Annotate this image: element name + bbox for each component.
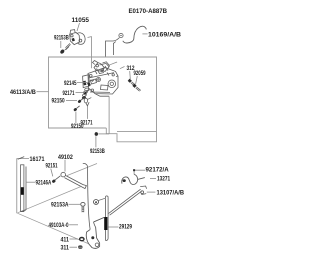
bolt 92151 — [51, 179, 56, 184]
leader 16171 — [17, 159, 29, 214]
lever upper-right edge — [94, 217, 105, 222]
leaders to bottom labels — [76, 106, 88, 123]
clip above 92171 bottom label — [86, 102, 89, 106]
diagonals to 312 bolts — [110, 62, 125, 69]
svg-text:13107/A/B: 13107/A/B — [157, 190, 185, 197]
svg-text:11055: 11055 — [72, 17, 90, 24]
spring strip panel — [105, 196, 108, 241]
rod 13107/A/B — [109, 189, 141, 213]
bolt 92153A — [81, 202, 85, 212]
leader 29129 — [108, 226, 118, 228]
leader 13271 — [150, 177, 156, 179]
lever 49103A long left edge with hook top — [83, 163, 88, 166]
line from bracket to assembly — [88, 37, 92, 69]
leader 92146A — [26, 181, 36, 183]
dark bolt in left plate — [83, 81, 86, 86]
leader 411 — [70, 238, 79, 240]
bracket dark rivet — [71, 38, 74, 42]
leader 13107/A/B — [147, 191, 156, 193]
leader 46113/A/B — [37, 91, 49, 93]
damper 29129 — [104, 217, 107, 230]
nut 311 — [78, 245, 83, 248]
svg-text:92150: 92150 — [71, 123, 84, 130]
left bracket plate — [83, 75, 90, 88]
svg-text:49102: 49102 — [58, 154, 73, 161]
bolt 312 — [128, 79, 132, 83]
clamp 92172/A — [122, 174, 145, 184]
main group box (stepped) — [49, 57, 157, 142]
bolt 92059 — [132, 84, 136, 88]
svg-text:92153B: 92153B — [54, 35, 69, 42]
shaft bar 16171 — [18, 157, 26, 212]
leader 49102 — [64, 160, 66, 172]
leader 92171 mid — [76, 92, 84, 94]
sub box top edge — [117, 130, 157, 132]
balloon connector — [98, 198, 105, 200]
short edge to damper — [94, 217, 105, 222]
wire 10169 hook — [123, 28, 139, 43]
svg-text:49103A-0: 49103A-0 — [49, 222, 69, 229]
leader 312 — [129, 71, 132, 79]
leader 92151 — [51, 169, 53, 177]
bolt 92153B mid with leader — [98, 133, 109, 135]
wire 10169 circled grommet — [119, 33, 123, 37]
svg-text:92153B: 92153B — [90, 148, 105, 155]
leader 92153B top — [60, 41, 62, 48]
svg-text:16171: 16171 — [30, 156, 45, 163]
lever 49103A right edge — [94, 222, 96, 227]
svg-text:411: 411 — [61, 236, 70, 243]
leader 92172/A with tick — [134, 170, 145, 174]
washer stack — [82, 88, 89, 97]
dark ring — [81, 96, 86, 100]
leader 92145 — [77, 82, 88, 84]
small link part — [84, 98, 87, 103]
screw above 92150 bottom label — [73, 107, 77, 111]
lever 49103A foot — [86, 227, 99, 248]
svg-text:29129: 29129 — [119, 223, 132, 230]
leader 92153A — [69, 203, 81, 205]
leader 92059 — [136, 76, 138, 84]
step corner — [106, 128, 109, 134]
rod clevis fork — [140, 186, 146, 195]
link line T3 — [18, 187, 81, 213]
bracket 11055 — [70, 30, 86, 45]
leader 92150 left — [66, 100, 77, 102]
leader 49103A-0 — [69, 224, 78, 226]
svg-text:92145: 92145 — [64, 80, 77, 87]
svg-text:46113/A/B: 46113/A/B — [10, 89, 36, 96]
svg-text:92153A: 92153A — [51, 202, 69, 209]
link line D2 — [17, 213, 88, 243]
svg-text:92171: 92171 — [63, 90, 75, 97]
washer 411 — [80, 238, 84, 241]
shaft black band — [21, 187, 24, 195]
lever stack top — [93, 61, 110, 76]
bolt 92153B top (head) — [59, 49, 65, 55]
screw 92171 mid — [83, 91, 87, 95]
svg-text:10169/A/B: 10169/A/B — [148, 32, 181, 39]
link line T1 — [66, 164, 97, 177]
balloon A — [94, 200, 99, 205]
bolt 92150 left — [77, 99, 81, 103]
svg-text:E0170-A887B: E0170-A887B — [129, 8, 168, 15]
rod 49102 — [61, 172, 87, 188]
leader 11055 — [77, 23, 80, 31]
drop line from body — [108, 96, 110, 134]
bolt 92153B top (threads) — [65, 43, 71, 50]
svg-text:92146A: 92146A — [36, 179, 52, 186]
leader 10169/A/B — [142, 33, 147, 35]
svg-text:A: A — [95, 200, 98, 205]
svg-text:92059: 92059 — [134, 70, 146, 77]
body bottom edge — [95, 94, 109, 97]
svg-text:92150: 92150 — [52, 98, 66, 105]
svg-text:311: 311 — [61, 244, 70, 251]
svg-text:92151: 92151 — [46, 163, 58, 170]
leader 311 — [70, 246, 78, 248]
svg-text:13271: 13271 — [157, 176, 171, 183]
wire 10169 drops — [106, 38, 120, 57]
svg-text:92172/A: 92172/A — [146, 167, 170, 174]
spring 92145 — [90, 80, 94, 82]
main body plate — [88, 68, 118, 94]
